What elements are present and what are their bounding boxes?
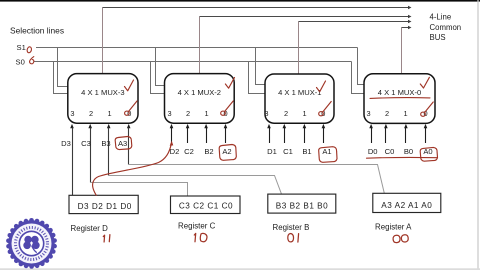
wire MUX-3 output drop: [102, 8, 104, 74]
wire S0 tap to MUX-3: [54, 62, 69, 94]
red tick pin0 MUX-0: [425, 102, 434, 112]
svg-text:Register B: Register B: [273, 223, 310, 232]
red tick pin0 MUX-3: [129, 101, 137, 111]
wire S1 tap to MUX-0: [358, 48, 365, 85]
wire bus line 1: [103, 7, 409, 9]
wire S0 tap to MUX-2: [151, 62, 165, 94]
svg-text:D2: D2: [170, 147, 180, 156]
wire C0 stub: [385, 128, 387, 144]
red check MUX-0: [420, 77, 429, 88]
wire bus line 2: [200, 16, 409, 18]
wire C1 stub: [284, 128, 286, 144]
wire S1 tap to MUX-1: [256, 48, 266, 85]
red underline D0 C0 B0 A0: [367, 156, 438, 159]
wire C3 horizontal run: [91, 183, 188, 197]
svg-text:4 X 1 MUX-1: 4 X 1 MUX-1: [278, 88, 321, 97]
svg-text:3: 3: [366, 109, 370, 118]
frame top bar: [0, 0, 480, 2]
svg-text:C3: C3: [81, 139, 91, 148]
wire MUX-0 output drop: [401, 28, 403, 74]
wire C3 input vertical: [90, 128, 92, 183]
svg-text:B3: B3: [101, 139, 110, 148]
svg-text:C2: C2: [184, 147, 194, 156]
wire B1 stub: [304, 128, 306, 144]
bus arrowhead 2: [408, 15, 412, 19]
wire S1 tap to MUX-2: [156, 48, 165, 86]
red circle around A0: [420, 147, 437, 161]
mux U3 box: [68, 74, 138, 124]
mux U3 input stub arrows: [70, 124, 130, 128]
wire bus line 3: [299, 21, 409, 23]
wire D1 stub: [269, 128, 271, 144]
red check MUX-1: [317, 81, 326, 92]
svg-text:D3 D2 D1 D0: D3 D2 D1 D0: [78, 202, 132, 211]
wire bus line 4: [402, 27, 409, 29]
svg-text:B1: B1: [302, 147, 311, 156]
svg-text:2: 2: [89, 109, 93, 118]
red circle around A3: [115, 137, 132, 150]
mux U0 box: [364, 74, 435, 124]
mux U0 input stubs: [369, 124, 427, 128]
wire B3 horizontal run: [109, 176, 282, 195]
svg-text:2: 2: [186, 109, 190, 118]
wire B0 stub: [405, 128, 407, 144]
register A box: [373, 193, 441, 212]
mux U2 box: [165, 74, 235, 124]
svg-text:B3 B2 B1 B0: B3 B2 B1 B0: [276, 201, 328, 210]
mux U2 input stubs: [170, 124, 228, 128]
svg-text:S0: S0: [16, 57, 25, 66]
wire MUX-1 output drop: [298, 22, 300, 75]
red binary 01 under Register B: [288, 234, 294, 242]
mux U1 input stubs: [267, 124, 325, 128]
svg-text:A2: A2: [222, 147, 231, 156]
svg-text:1: 1: [107, 109, 111, 118]
red circle around A2: [219, 145, 236, 161]
wire A1 stub: [323, 128, 325, 144]
svg-text:4-Line: 4-Line: [430, 13, 452, 22]
svg-text:Register D: Register D: [71, 224, 109, 233]
wire S0 tap to MUX-0: [352, 62, 365, 94]
bus arrowhead 3: [408, 20, 412, 24]
wire S1 tap to MUX-3: [58, 48, 69, 87]
svg-text:BUS: BUS: [430, 33, 446, 42]
red binary 11 under Register D: [103, 235, 104, 242]
svg-text:D3: D3: [61, 139, 71, 148]
svg-text:1: 1: [204, 109, 208, 118]
svg-text:A3 A2 A1 A0: A3 A2 A1 A0: [381, 201, 432, 210]
svg-text:C1: C1: [283, 147, 293, 156]
svg-text:D0: D0: [368, 147, 378, 156]
frame bottom edge: [0, 268, 480, 270]
wire D0 stub: [371, 128, 373, 144]
svg-text:Register A: Register A: [375, 223, 412, 232]
svg-text:Selection lines: Selection lines: [10, 25, 64, 35]
wire A0 stub: [425, 128, 427, 144]
svg-text:S1: S1: [17, 43, 26, 52]
svg-text:B0: B0: [404, 147, 413, 156]
svg-text:B2: B2: [204, 147, 213, 156]
svg-text:4 X 1 MUX-3: 4 X 1 MUX-3: [81, 88, 124, 97]
svg-text:C0: C0: [385, 147, 395, 156]
red check MUX-2: [225, 78, 234, 89]
red box around A1: [319, 147, 337, 163]
svg-text:Common: Common: [430, 23, 462, 32]
svg-text:3: 3: [264, 109, 268, 118]
svg-text:2: 2: [284, 109, 288, 118]
wire C2 stub: [187, 128, 189, 144]
logo badge: [6, 218, 57, 269]
register C box: [171, 196, 241, 214]
svg-text:C3 C2 C1 C0: C3 C2 C1 C0: [179, 201, 233, 210]
wire S0 horizontal: [34, 61, 352, 63]
mux U1 box: [265, 74, 334, 123]
svg-text:1: 1: [403, 109, 407, 118]
svg-text:D1: D1: [267, 147, 277, 156]
wire S0 tap to MUX-1: [249, 62, 266, 94]
wire B2 stub: [206, 128, 208, 144]
red arrowhead on curve at D2: [170, 141, 174, 146]
red check MUX-3: [125, 80, 134, 91]
red binary 10 under Register C: [194, 233, 195, 241]
bus arrowhead 4: [408, 26, 412, 30]
red tick pin0 MUX-1: [323, 102, 332, 113]
svg-text:3: 3: [70, 109, 74, 118]
register B box: [268, 194, 336, 213]
wire A2 stub: [225, 128, 227, 144]
svg-text:1: 1: [303, 109, 307, 118]
wire D3 input vertical: [72, 128, 74, 196]
register D box: [69, 195, 138, 213]
red binary 00 under Register A: [393, 235, 400, 242]
wire D2 stub: [171, 128, 173, 144]
wire B3 input vertical: [108, 128, 110, 176]
wire MUX-2 output drop: [199, 17, 201, 74]
red zero at S1: [27, 46, 33, 53]
wire S1 horizontal: [36, 47, 358, 49]
svg-text:Register C: Register C: [178, 222, 216, 231]
red curve D2 to register D: [93, 144, 172, 196]
red annotations: [27, 46, 438, 242]
wire A3 horizontal run: [129, 165, 385, 194]
bus arrowhead 1: [408, 6, 412, 10]
red zero at S0: [30, 57, 34, 64]
red tick pin0 MUX-2: [225, 101, 234, 111]
svg-text:4 X 1 MUX-2: 4 X 1 MUX-2: [178, 88, 221, 97]
svg-text:4 X 1 MUX-0: 4 X 1 MUX-0: [378, 88, 421, 97]
wire A3 input vertical: [128, 128, 130, 165]
svg-text:A1: A1: [322, 147, 331, 156]
svg-text:3: 3: [167, 109, 171, 118]
svg-text:A3: A3: [118, 139, 127, 148]
frame right edge: [477, 0, 478, 270]
red underline MUX-0 title: [370, 97, 430, 100]
svg-text:2: 2: [385, 109, 389, 118]
